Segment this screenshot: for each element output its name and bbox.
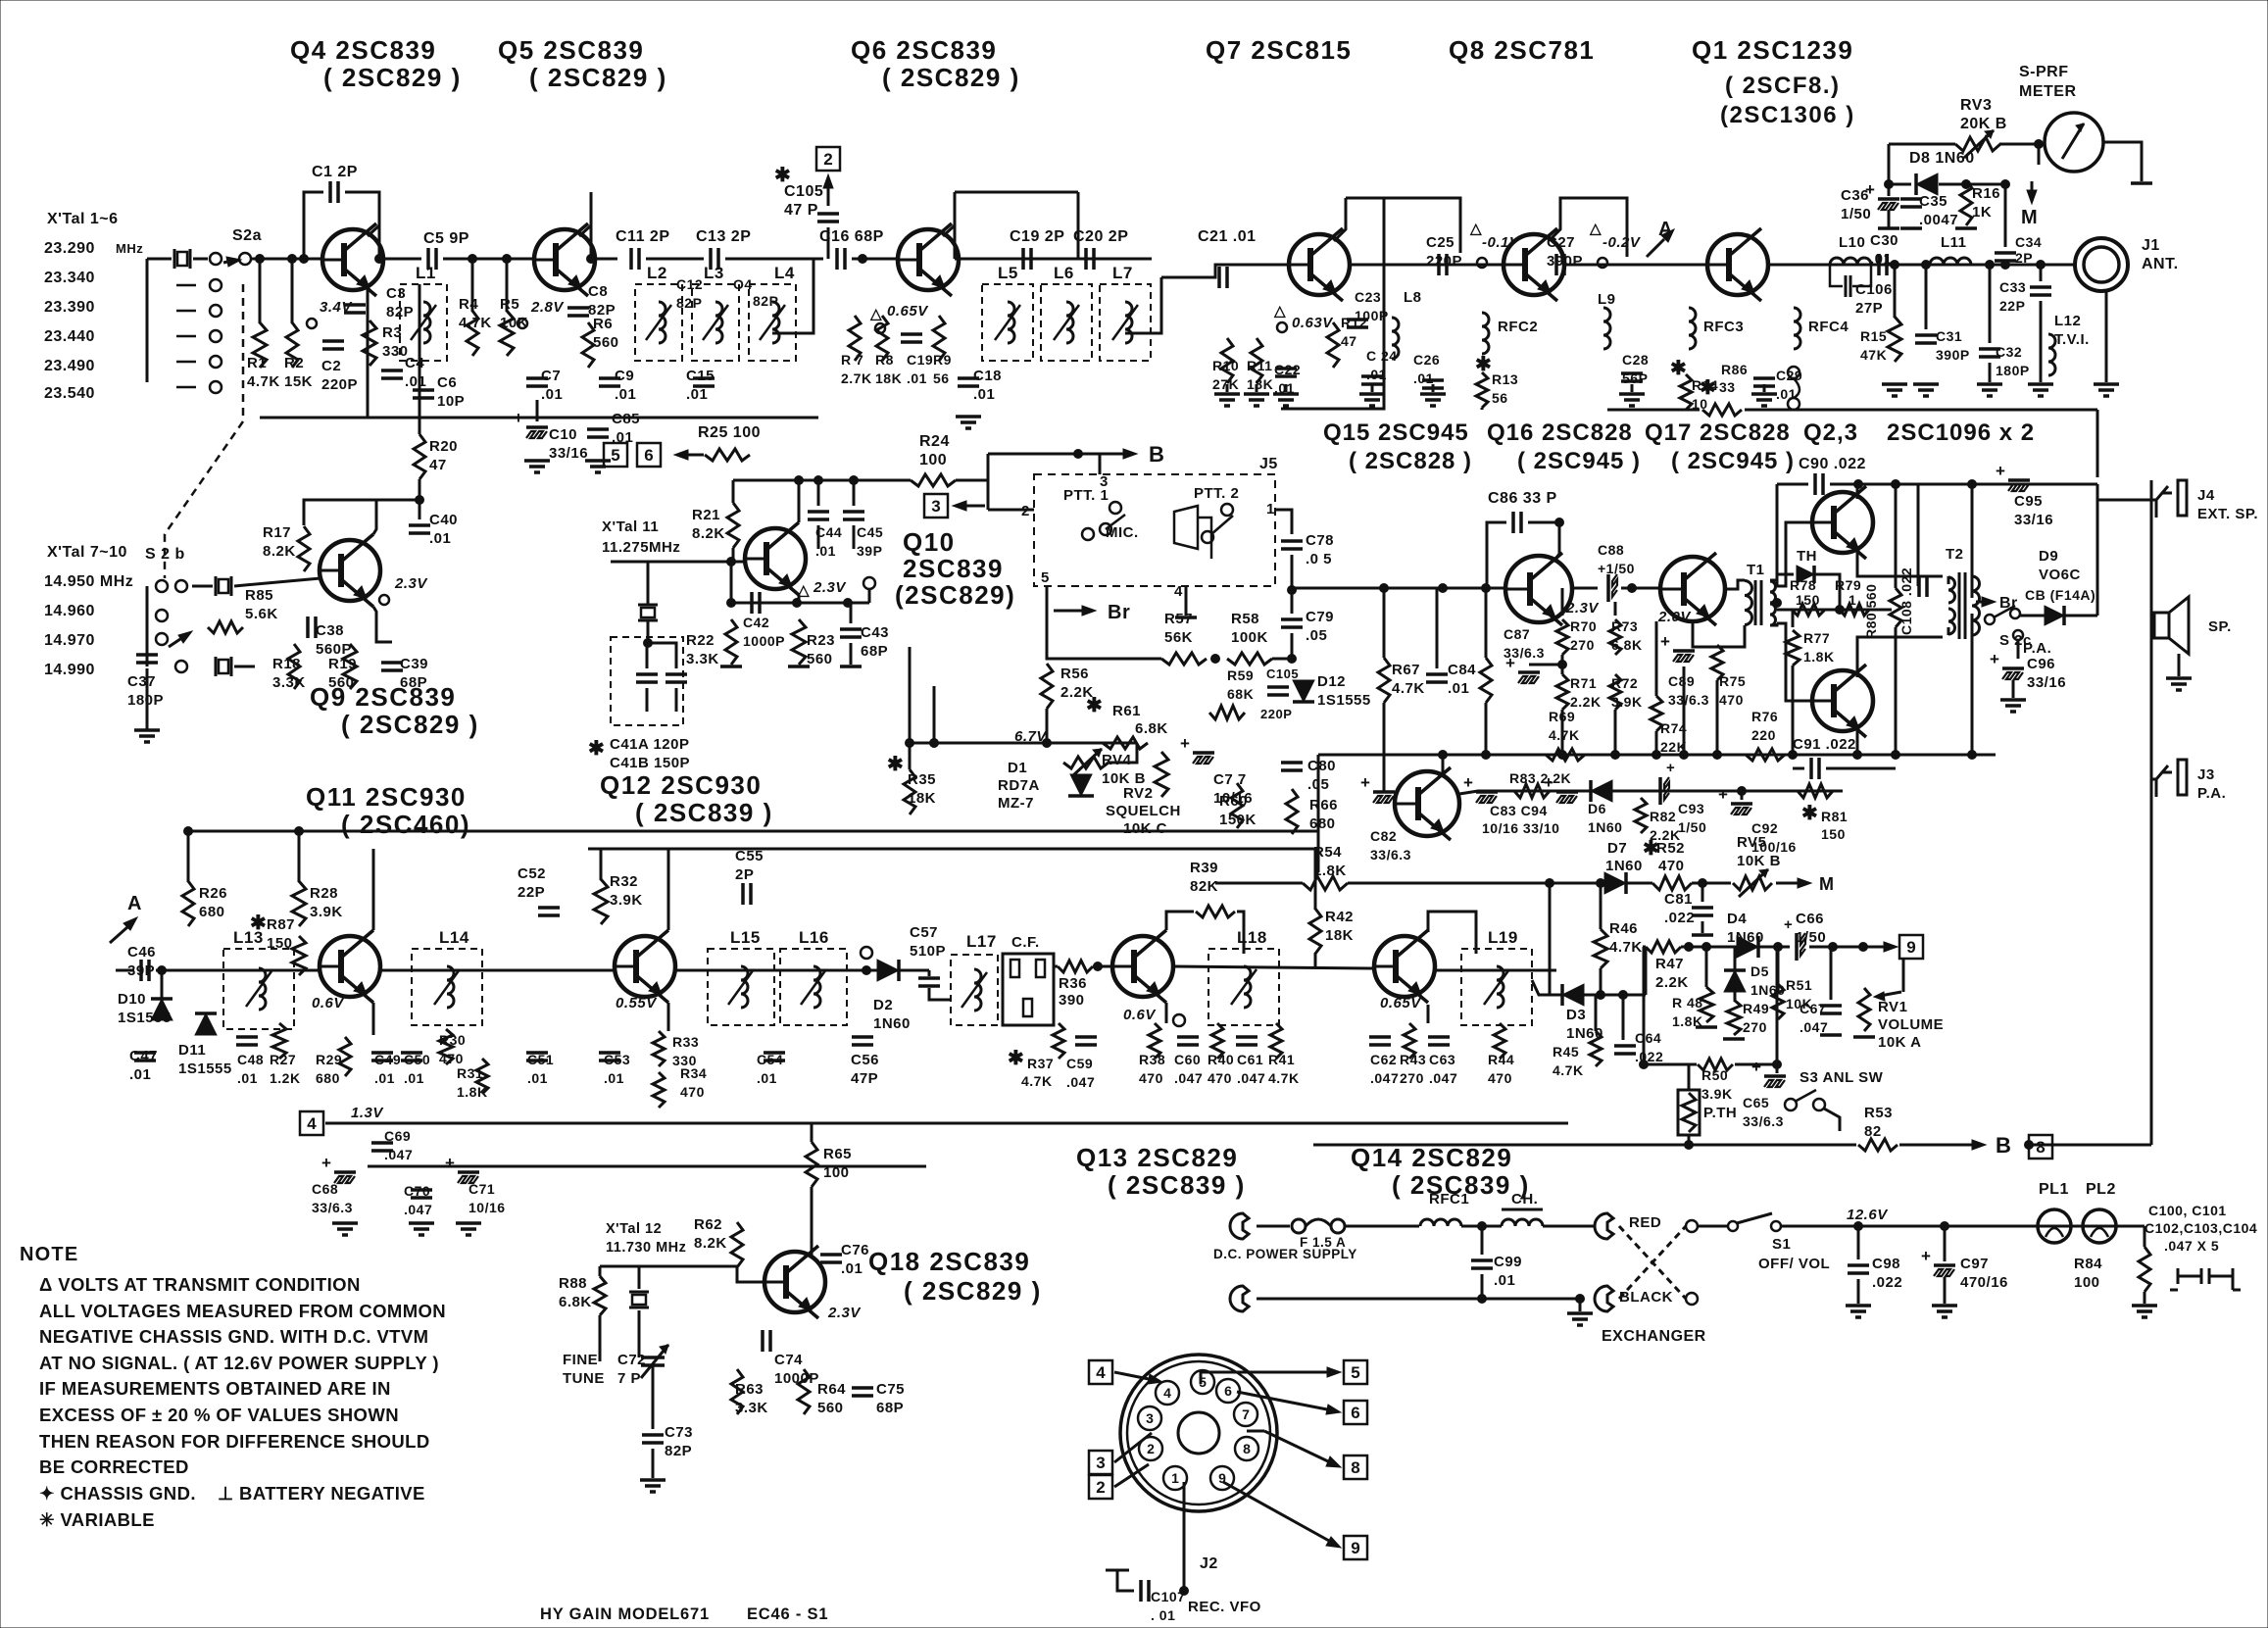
wire C44 top	[817, 480, 820, 506]
svg-text:C31: C31	[1936, 328, 1962, 344]
resistor R66	[1286, 789, 1298, 834]
transformer T2	[1948, 572, 1980, 639]
svg-text:.022: .022	[1664, 910, 1695, 926]
svg-text:✱: ✱	[1643, 838, 1659, 860]
svg-text:R79: R79	[1835, 577, 1861, 593]
svg-text:C61: C61	[1237, 1052, 1263, 1067]
wire R35 up	[909, 647, 912, 769]
wire L4 out	[772, 259, 814, 333]
svg-text:11.275MHz: 11.275MHz	[602, 539, 680, 556]
capacitor C68	[334, 1170, 356, 1174]
svg-text:R41: R41	[1268, 1052, 1295, 1067]
svg-text:L8: L8	[1404, 289, 1422, 306]
svg-text:NEGATIVE CHASSIS GND. WITH: NEGATIVE CHASSIS GND. WITH D.C. VTVM	[39, 1326, 428, 1347]
wire C86 right	[1528, 522, 1559, 554]
svg-text:IF MEASUREMENTS OBTAINED AR: IF MEASUREMENTS OBTAINED ARE IN	[39, 1378, 391, 1399]
resistor R8	[876, 316, 888, 361]
capacitor C36	[1878, 197, 1899, 201]
svg-text:1S1555: 1S1555	[178, 1061, 232, 1077]
svg-text:RED: RED	[1629, 1214, 1661, 1231]
capacitor C31	[1915, 333, 1937, 337]
wire C97 gnd	[1944, 1277, 1947, 1304]
wire R80 top	[1895, 484, 1898, 588]
junction	[1652, 751, 1661, 760]
socket J2 pin 4	[1156, 1381, 1179, 1405]
wire Q3 emitter	[1857, 637, 1943, 677]
svg-text:270: 270	[1400, 1070, 1424, 1086]
svg-text:23.340: 23.340	[44, 270, 95, 286]
wire Q2 collector up	[1856, 484, 1859, 499]
svg-text:560: 560	[593, 334, 619, 351]
svg-text:J3: J3	[2197, 766, 2215, 783]
svg-text:C107: C107	[1151, 1589, 1185, 1604]
wire C41 bus	[647, 643, 676, 668]
wire Q4 out	[379, 258, 421, 261]
junction	[256, 255, 265, 264]
svg-text:470: 470	[439, 1051, 464, 1066]
wire exchanger cross 1	[1619, 1226, 1686, 1299]
capacitor C47	[134, 1051, 156, 1055]
svg-text:Q5 2SC839: Q5 2SC839	[498, 35, 644, 65]
capacitor C93	[1658, 777, 1662, 805]
svg-text:BE CORRECTED: BE CORRECTED	[39, 1456, 189, 1477]
capacitor C100 group	[2170, 1268, 2241, 1290]
svg-text:✱: ✱	[588, 738, 605, 760]
svg-text:3.9K: 3.9K	[1701, 1086, 1733, 1102]
wire C32-gnd	[1989, 363, 1992, 382]
svg-text:R26: R26	[199, 885, 227, 902]
wire SP gnd	[2178, 654, 2181, 676]
svg-text:C30: C30	[1870, 232, 1898, 249]
wire C89 bottom	[1683, 666, 1686, 755]
ceramic filter C.F.	[1003, 954, 1054, 1025]
svg-text:C69: C69	[384, 1128, 411, 1144]
capacitor C3	[344, 303, 366, 307]
svg-text:.01: .01	[604, 1070, 624, 1086]
svg-text:C98: C98	[1872, 1256, 1900, 1272]
svg-text:FINE: FINE	[563, 1352, 598, 1368]
connector J1 outer	[2075, 238, 2128, 291]
svg-text:4.7K: 4.7K	[1268, 1070, 1300, 1086]
wire R71 bottom	[1561, 710, 1564, 755]
battery neg C43	[840, 665, 862, 668]
wire T1 sec mid	[1770, 602, 1777, 605]
wire TH out	[1814, 574, 1840, 610]
wire S2a to Q4 base	[251, 258, 322, 261]
R85 wiper	[169, 631, 192, 647]
capacitor C46	[139, 960, 143, 981]
resistor R61	[1103, 737, 1148, 749]
resistor R54	[1303, 876, 1348, 890]
ground R84	[2132, 1306, 2157, 1317]
resistor R79	[1840, 604, 1869, 616]
PTT2 contact a	[1221, 504, 1233, 516]
svg-text:C52: C52	[518, 865, 546, 882]
wire Q6 top rail	[955, 191, 1078, 194]
net 5 box J2	[1344, 1360, 1367, 1384]
wire R50 row b	[1735, 1063, 1777, 1066]
capacitor C96	[2002, 666, 2024, 670]
svg-text:1N60: 1N60	[1605, 858, 1643, 874]
svg-text:14.950 MHz: 14.950 MHz	[44, 573, 133, 590]
inductor RFC3	[1689, 308, 1696, 349]
coil L6	[1041, 284, 1092, 361]
wire C65 link	[1776, 947, 1779, 1073]
wire S1 out	[1782, 1225, 2145, 1228]
svg-text:1/50: 1/50	[1678, 819, 1706, 835]
svg-text:33: 33	[1719, 379, 1736, 395]
svg-text:C46: C46	[127, 944, 156, 961]
svg-text:J5: J5	[1259, 456, 1278, 472]
svg-text:1: 1	[1171, 1470, 1179, 1486]
capacitor C106 loop	[1830, 265, 1871, 286]
svg-text:TH: TH	[1797, 548, 1817, 565]
svg-text:L6: L6	[1054, 264, 1074, 282]
svg-text:3.3K: 3.3K	[735, 1400, 768, 1416]
svg-text:2SC839: 2SC839	[903, 554, 1004, 583]
wire R39 out	[1237, 912, 1244, 954]
wire IF line f	[1435, 969, 1556, 972]
wire fuse out	[1345, 1225, 1419, 1228]
resistor R86	[1702, 404, 1742, 416]
svg-text:470: 470	[1719, 692, 1744, 708]
S2a contact 1	[210, 253, 222, 265]
svg-text:470/16: 470/16	[1960, 1274, 2008, 1291]
svg-text:C54: C54	[757, 1052, 783, 1067]
svg-text:7: 7	[1242, 1406, 1250, 1422]
capacitor C30	[1877, 254, 1881, 275]
svg-text:1: 1	[1266, 501, 1275, 518]
svg-text:C40: C40	[429, 512, 458, 528]
S2a contact 4	[210, 330, 222, 342]
resistor R84	[2139, 1247, 2150, 1292]
resistor R60	[1231, 783, 1243, 828]
wire R86 out	[1745, 409, 2097, 412]
capacitor C44	[808, 510, 829, 514]
wire xtal10 lead	[234, 666, 255, 668]
svg-text:✱: ✱	[1008, 1048, 1024, 1069]
wire IF rail 2	[588, 848, 1318, 851]
exchanger pin 2	[1686, 1293, 1698, 1305]
wire exchanger cross 2	[1619, 1226, 1686, 1299]
resistor R21	[727, 503, 739, 548]
svg-text:+: +	[1718, 785, 1728, 804]
svg-text:R31: R31	[457, 1065, 483, 1081]
svg-text:ALL VOLTAGES MEASURED FROM: ALL VOLTAGES MEASURED FROM COMMON	[39, 1301, 446, 1321]
svg-text:+1/50: +1/50	[1598, 561, 1635, 576]
resistor R62	[731, 1222, 743, 1267]
svg-text:180P: 180P	[1996, 363, 2030, 378]
svg-text:4.7K: 4.7K	[459, 315, 492, 331]
transistor Q15 squelch	[1395, 767, 1459, 840]
junction	[1854, 1222, 1863, 1231]
wire C64 top	[1622, 995, 1625, 1040]
svg-text:D7: D7	[1607, 840, 1627, 857]
svg-text:Br: Br	[1108, 602, 1130, 623]
inductor T1 primary	[1745, 581, 1752, 625]
svg-text:14.970: 14.970	[44, 632, 95, 649]
svg-text:+: +	[1180, 734, 1190, 753]
svg-text:C45: C45	[857, 524, 883, 540]
coil L16	[780, 949, 847, 1025]
svg-text:L17: L17	[966, 932, 997, 951]
svg-text:L14: L14	[439, 928, 469, 947]
svg-text:R29: R29	[316, 1052, 342, 1067]
svg-text:C15: C15	[686, 368, 715, 384]
svg-text:R42: R42	[1325, 909, 1354, 925]
capacitor C11	[629, 248, 633, 270]
svg-text:C5 9P: C5 9P	[423, 230, 469, 247]
wire xtal7 out	[234, 578, 320, 586]
net 4 box	[300, 1111, 323, 1135]
wire R53 to B	[1899, 1144, 1960, 1147]
connector DC plus	[1230, 1213, 1249, 1239]
wire R46 top	[1600, 883, 1602, 929]
svg-text:+: +	[1505, 654, 1515, 672]
capacitor C41B	[666, 672, 687, 676]
capacitor C32	[1979, 347, 2000, 351]
junction	[727, 599, 736, 608]
capacitor C59	[1075, 1035, 1097, 1039]
ground C33	[2028, 384, 2053, 396]
svg-text:R33: R33	[672, 1034, 699, 1050]
svg-text:PL1: PL1	[2039, 1181, 2069, 1198]
wire T2 sec bottom down	[1971, 614, 1974, 755]
svg-text:S-PRF: S-PRF	[2019, 64, 2069, 80]
svg-text:R23: R23	[807, 632, 835, 649]
svg-text:✱: ✱	[887, 754, 904, 775]
capacitor C74	[761, 1330, 764, 1352]
svg-text:B: B	[1149, 442, 1164, 467]
svg-text:R39: R39	[1190, 860, 1218, 876]
svg-text:470: 470	[680, 1084, 705, 1100]
svg-text:R73: R73	[1611, 618, 1638, 634]
svg-text:23.440: 23.440	[44, 328, 95, 345]
svg-text:C63: C63	[1429, 1052, 1455, 1067]
diode D7	[1604, 872, 1626, 894]
battery neg mic	[1175, 616, 1197, 619]
junction	[1597, 879, 1605, 888]
diode D9	[2045, 606, 2064, 625]
capacitor C33	[2030, 285, 2051, 289]
svg-text:C27: C27	[1547, 234, 1575, 251]
svg-text:3.9K: 3.9K	[310, 904, 343, 920]
wire Q14 collector up	[1428, 912, 1476, 954]
wire C33-gnd	[2040, 301, 2043, 382]
svg-text:10/16 33/10: 10/16 33/10	[1482, 820, 1559, 836]
net A arrow left	[110, 917, 137, 943]
junction	[1478, 1295, 1487, 1304]
wire R65 vert	[811, 1123, 814, 1142]
capacitor C5	[426, 248, 430, 270]
wire meter top rail	[1889, 143, 1955, 146]
svg-text:R85: R85	[245, 587, 273, 604]
svg-text:C41B 150P: C41B 150P	[610, 755, 690, 771]
wire mid row	[1777, 609, 1892, 612]
svg-text:AT NO SIGNAL. ( AT 12.6V: AT NO SIGNAL. ( AT 12.6V POWER SUPPLY )	[39, 1353, 439, 1373]
svg-text:2.3V: 2.3V	[813, 579, 847, 596]
svg-text:6.8K: 6.8K	[1611, 637, 1643, 653]
resistor R77	[1786, 630, 1800, 666]
capacitor C43	[840, 627, 862, 631]
junction	[1859, 943, 1868, 952]
svg-text:3: 3	[1100, 473, 1109, 490]
transistor Q6	[898, 223, 959, 296]
wire C41B bottom	[675, 688, 678, 712]
svg-text:C96: C96	[2027, 656, 2055, 672]
wire net3 vert	[987, 454, 990, 510]
svg-text:14.960: 14.960	[44, 603, 95, 619]
test point D2	[861, 947, 872, 959]
svg-text:L12: L12	[2054, 313, 2081, 329]
svg-text:220P: 220P	[1260, 707, 1292, 721]
wire S2b xtal	[192, 585, 213, 588]
junction	[863, 966, 871, 975]
wire Q12t emitter down	[667, 1003, 670, 1031]
svg-text:C21 .01: C21 .01	[1198, 228, 1257, 245]
net 9 box	[1899, 935, 1923, 959]
svg-text:.047 X 5: .047 X 5	[2164, 1238, 2219, 1254]
wire meter right lead	[2103, 142, 2142, 181]
wire Q12 collector	[798, 480, 801, 522]
resistor R19	[343, 644, 357, 689]
junction	[1773, 1061, 1782, 1069]
battery neg R49	[1723, 1037, 1745, 1041]
resistor R59	[1209, 706, 1245, 719]
resistor R58	[1227, 653, 1272, 665]
svg-text:5: 5	[1351, 1363, 1359, 1382]
svg-text:C73: C73	[665, 1424, 693, 1441]
svg-text:C32: C32	[1996, 344, 2022, 360]
test point Q6	[875, 323, 885, 333]
wire R46 bottom	[1600, 968, 1602, 995]
inductor RFC1	[1420, 1219, 1461, 1226]
wire PA drop	[2017, 640, 2020, 659]
wire R68 bottom	[1485, 703, 1488, 755]
jack J3	[2156, 765, 2172, 797]
svg-text:R83 2.2K: R83 2.2K	[1509, 770, 1571, 786]
thermistor P.TH	[1678, 1090, 1700, 1135]
junction	[288, 255, 297, 264]
svg-text:4.7K: 4.7K	[1553, 1062, 1584, 1078]
svg-text:F 1.5 A: F 1.5 A	[1300, 1235, 1346, 1250]
wire J3 link	[2151, 778, 2156, 781]
svg-text:.047: .047	[1800, 1019, 1828, 1035]
svg-text:R49: R49	[1743, 1001, 1769, 1016]
wire C43 link	[850, 603, 853, 623]
coil L2	[635, 284, 682, 361]
wire right vert J4	[2096, 484, 2099, 616]
wire IF top rail	[191, 830, 1318, 833]
wire det line	[1532, 980, 1562, 995]
svg-text:33/16: 33/16	[2027, 674, 2066, 691]
lamp PL2	[2083, 1209, 2116, 1243]
svg-text:4.7K: 4.7K	[247, 373, 280, 390]
wire RV4 right	[1109, 743, 1137, 763]
capacitor C23	[1347, 318, 1368, 321]
svg-text:D4: D4	[1727, 911, 1747, 927]
svg-text:THEN REASON FOR DIFFERENCE: THEN REASON FOR DIFFERENCE SHOULD	[39, 1431, 430, 1452]
wire base col	[730, 562, 733, 603]
capacitor C27	[1554, 254, 1558, 275]
junction	[1288, 655, 1297, 664]
resistor R78	[1792, 604, 1825, 616]
svg-text:.0047: .0047	[1919, 212, 1958, 228]
svg-text:1N60: 1N60	[873, 1015, 911, 1032]
ground R15	[1882, 384, 1907, 396]
capacitor C78	[1281, 539, 1303, 543]
svg-text:R59: R59	[1227, 667, 1254, 683]
capacitor C89	[1673, 649, 1695, 653]
net 3 box J2	[1089, 1451, 1112, 1474]
wire bus to R54 vert	[1317, 755, 1320, 872]
svg-text:C41A 120P: C41A 120P	[610, 736, 690, 753]
svg-text:C42: C42	[743, 615, 769, 630]
wire Q12 emitter	[798, 595, 801, 603]
svg-text:O4: O4	[733, 276, 753, 292]
svg-text:.01: .01	[1776, 386, 1797, 402]
coil L19	[1461, 949, 1532, 1025]
svg-text:L11: L11	[1941, 234, 1967, 251]
battery neg C81	[1692, 933, 1713, 937]
capacitor C29	[1753, 376, 1775, 380]
svg-text:R16: R16	[1972, 185, 2000, 202]
svg-text:C87: C87	[1504, 626, 1530, 642]
capacitor C28	[1621, 371, 1643, 375]
wire R26 top	[187, 831, 190, 882]
wire Q12 emitter row	[731, 602, 869, 605]
svg-text:R65: R65	[823, 1146, 852, 1162]
svg-text:R12: R12	[1341, 315, 1367, 330]
coil L13	[223, 949, 294, 1029]
wire C37 gnd	[146, 668, 149, 730]
svg-text:MZ-7: MZ-7	[998, 795, 1034, 812]
resistor R35	[904, 769, 915, 814]
wire Q9 collector up	[304, 500, 376, 534]
svg-text:3: 3	[1146, 1410, 1154, 1426]
capacitor C99	[1471, 1258, 1493, 1262]
diode D6	[1591, 780, 1612, 802]
net 6 box J2	[1344, 1401, 1367, 1424]
svg-text:D9: D9	[2039, 548, 2058, 565]
svg-text:( 2SC829 ): ( 2SC829 )	[323, 63, 462, 92]
junction	[468, 255, 477, 264]
capacitor C26	[1422, 378, 1444, 382]
svg-text:C65: C65	[1743, 1095, 1769, 1110]
svg-text:C11 2P: C11 2P	[616, 228, 669, 245]
wire R84 gnd	[2144, 1292, 2146, 1304]
resistor R74	[1651, 696, 1662, 731]
svg-text:B: B	[1996, 1133, 2011, 1158]
wire Q11 emitter down	[372, 1003, 375, 1035]
ground J1	[2094, 384, 2119, 396]
diode D1 zener	[1070, 774, 1092, 796]
svg-text:RD7A: RD7A	[998, 777, 1040, 794]
resistor R42	[1309, 909, 1321, 954]
wire R47 left	[1643, 946, 1646, 949]
net 9 arrow	[1882, 942, 1898, 952]
svg-text:3.9K: 3.9K	[610, 892, 643, 909]
net M arrow	[2027, 181, 2037, 204]
svg-text:△: △	[869, 306, 882, 322]
svg-text:10/16: 10/16	[468, 1200, 506, 1215]
junction	[1380, 584, 1389, 593]
net Br arrow	[1054, 606, 1096, 616]
wire net B link	[988, 453, 1086, 456]
wire C26 gnd stub	[1432, 384, 1435, 392]
wire C28 gnd stub	[1631, 384, 1634, 392]
wire agc row a	[1681, 946, 1737, 949]
